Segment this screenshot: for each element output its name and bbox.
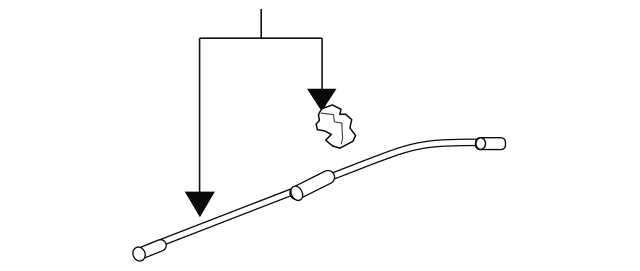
cable right ferrule (476, 138, 506, 150)
ferrule end ellipse (476, 138, 486, 150)
clip inner step line (321, 113, 343, 144)
wire: callout stem (top vertical) (260, 9, 262, 38)
wire: right callout drop (321, 38, 323, 89)
wire: callout horizontal bar (200, 37, 323, 39)
cable end cap face ellipse (131, 245, 147, 263)
sleeve end ellipse (289, 184, 305, 202)
cable middle sleeve (297, 177, 328, 193)
cable tube (outer outline) (148, 142, 478, 247)
arrow (right pointer) (307, 89, 337, 112)
cable tube (inner white) (148, 142, 478, 247)
cable end cap (lower left cylinder) (139, 245, 160, 254)
clip (retainer) outline (316, 105, 356, 148)
wire: left callout drop (199, 38, 201, 192)
arrow (left pointer) (185, 192, 215, 218)
